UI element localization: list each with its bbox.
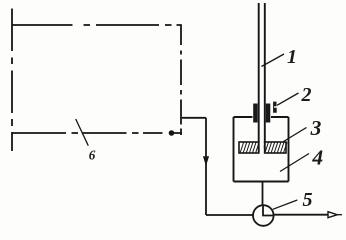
float 3 hatched band: [239, 142, 287, 153]
gland 2 packing blocks at vessel lid: [253, 104, 270, 123]
wire: vertical down pipe: [205, 118, 207, 215]
tube 1 (double-line dip tube): [259, 3, 265, 152]
svg-text:3: 3: [310, 116, 322, 140]
vessel 4 walls: [234, 117, 289, 182]
svg-text:4: 4: [311, 146, 323, 170]
enclosure 6 bottom side (dash-dot): [12, 132, 182, 134]
leader line to label 5: [273, 200, 298, 209]
leader line to label 3: [284, 128, 307, 142]
enclosure 6 right side (dash-dot): [180, 25, 182, 135]
leader line to label 4: [280, 154, 309, 172]
arrowhead (outlet, open): [328, 212, 342, 218]
fitting 2 small pin (pointed by label 2): [273, 102, 277, 113]
enclosure 6 left side (dash-dot): [11, 9, 13, 152]
pump 5 internal elbow: [263, 205, 274, 215]
leader slash for label 6: [76, 119, 89, 146]
tube 1 interior (white over float band): [260, 141, 264, 154]
junction dot on enclosure bottom line: [169, 130, 175, 136]
pump 5 circle: [253, 205, 274, 226]
svg-text:2: 2: [301, 84, 312, 106]
enclosure 6 top side (dash-dot): [12, 24, 182, 26]
wire: pump outlet to the right: [274, 214, 328, 216]
leader line to label 2: [277, 93, 299, 105]
wire: tap line from enclosure right side to down pipe: [182, 117, 206, 119]
wire: pipe vessel bottom to pump 5: [262, 182, 264, 206]
svg-text:1: 1: [287, 46, 297, 68]
arrowhead (flow down) on vertical pipe: [203, 156, 209, 166]
svg-text:5: 5: [303, 189, 313, 211]
svg-text:6: 6: [89, 147, 96, 162]
wire: bottom pipe to pump: [206, 214, 253, 216]
leader line to label 1: [262, 54, 285, 67]
